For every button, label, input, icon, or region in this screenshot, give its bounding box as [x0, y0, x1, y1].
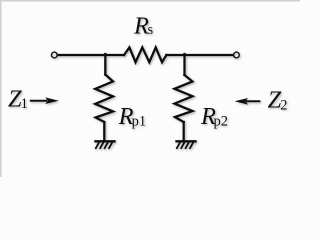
frame edge top	[0, 0, 300, 2]
svg-text:1: 1	[21, 96, 28, 112]
svg-text:2: 2	[280, 98, 287, 114]
arrow right (Z1 pointer)	[30, 97, 59, 104]
terminal port 1 (left open circle)	[51, 52, 57, 58]
wire: node A down to Rp1	[104, 54, 106, 75]
svg-text:p2: p2	[214, 114, 229, 130]
ground 1	[96, 141, 115, 148]
resistor Rp2 (shunt, vertical zigzag)	[175, 75, 193, 122]
wire: node B to port 2	[185, 54, 234, 56]
wire: Rp2 to ground 2	[183, 122, 185, 141]
ground 2	[177, 141, 196, 148]
wire: Rs right lead to node B	[166, 54, 184, 56]
resistor Rs (series, horizontal zigzag)	[124, 47, 166, 62]
wire: node B down to Rp2	[183, 54, 185, 75]
svg-text:p1: p1	[132, 114, 147, 130]
svg-text:s: s	[148, 22, 154, 38]
arrow left (Z2 pointer)	[235, 98, 261, 105]
terminal port 2 (right open circle)	[234, 52, 240, 58]
wire: Rp1 to ground 1	[103, 122, 105, 141]
wire: node A to Rs left lead	[105, 54, 124, 56]
frame edge left	[0, 0, 2, 177]
wire: port1 to node A	[58, 54, 106, 56]
resistor Rp1 (shunt, vertical zigzag)	[95, 75, 113, 123]
